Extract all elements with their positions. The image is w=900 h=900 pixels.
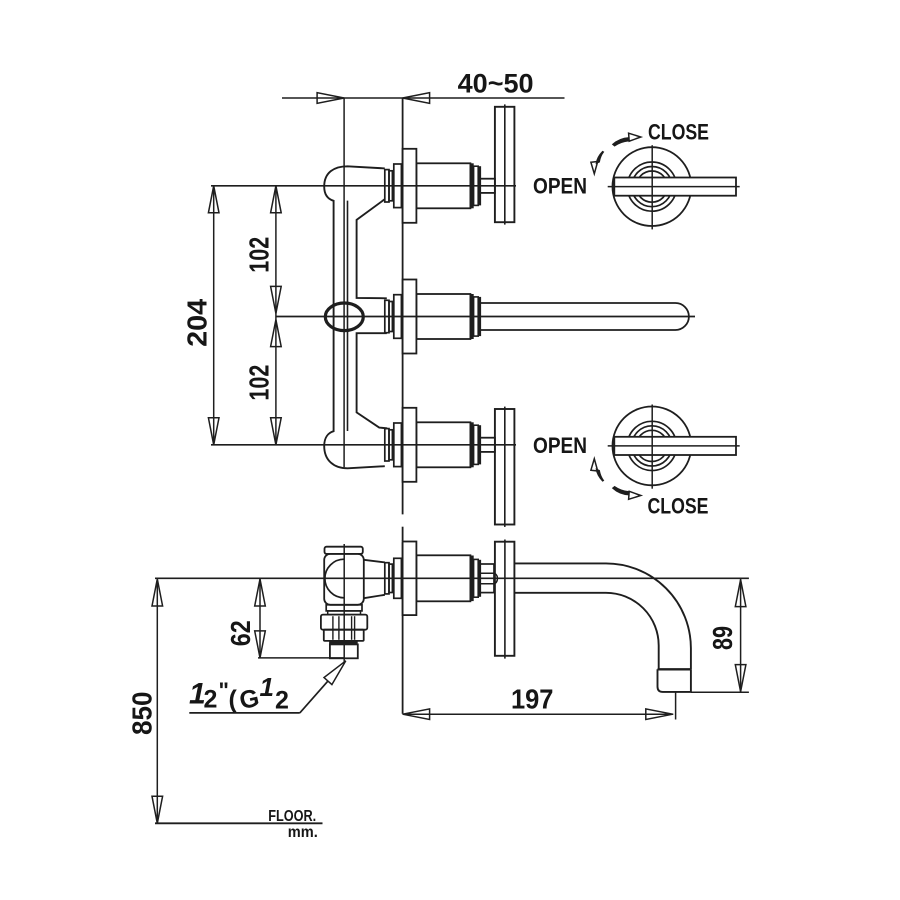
- svg-text:mm.: mm.: [288, 824, 318, 841]
- svg-text:204: 204: [181, 298, 212, 347]
- svg-text:(: (: [229, 686, 238, 714]
- svg-text:62: 62: [225, 620, 256, 646]
- svg-text:OPEN: OPEN: [533, 433, 587, 458]
- svg-text:OPEN: OPEN: [533, 174, 587, 199]
- svg-text:CLOSE: CLOSE: [648, 493, 709, 518]
- svg-text:2: 2: [275, 687, 289, 715]
- svg-text:102: 102: [243, 237, 274, 273]
- svg-text:197: 197: [511, 683, 554, 714]
- svg-text:40~50: 40~50: [458, 68, 534, 98]
- svg-text:102: 102: [243, 365, 274, 401]
- svg-text:CLOSE: CLOSE: [648, 119, 709, 144]
- svg-text:": ": [219, 678, 229, 703]
- svg-text:850: 850: [127, 691, 158, 735]
- svg-text:1: 1: [260, 672, 274, 702]
- svg-text:2: 2: [204, 686, 218, 714]
- svg-text:89: 89: [707, 626, 738, 650]
- svg-text:FLOOR.: FLOOR.: [268, 808, 316, 825]
